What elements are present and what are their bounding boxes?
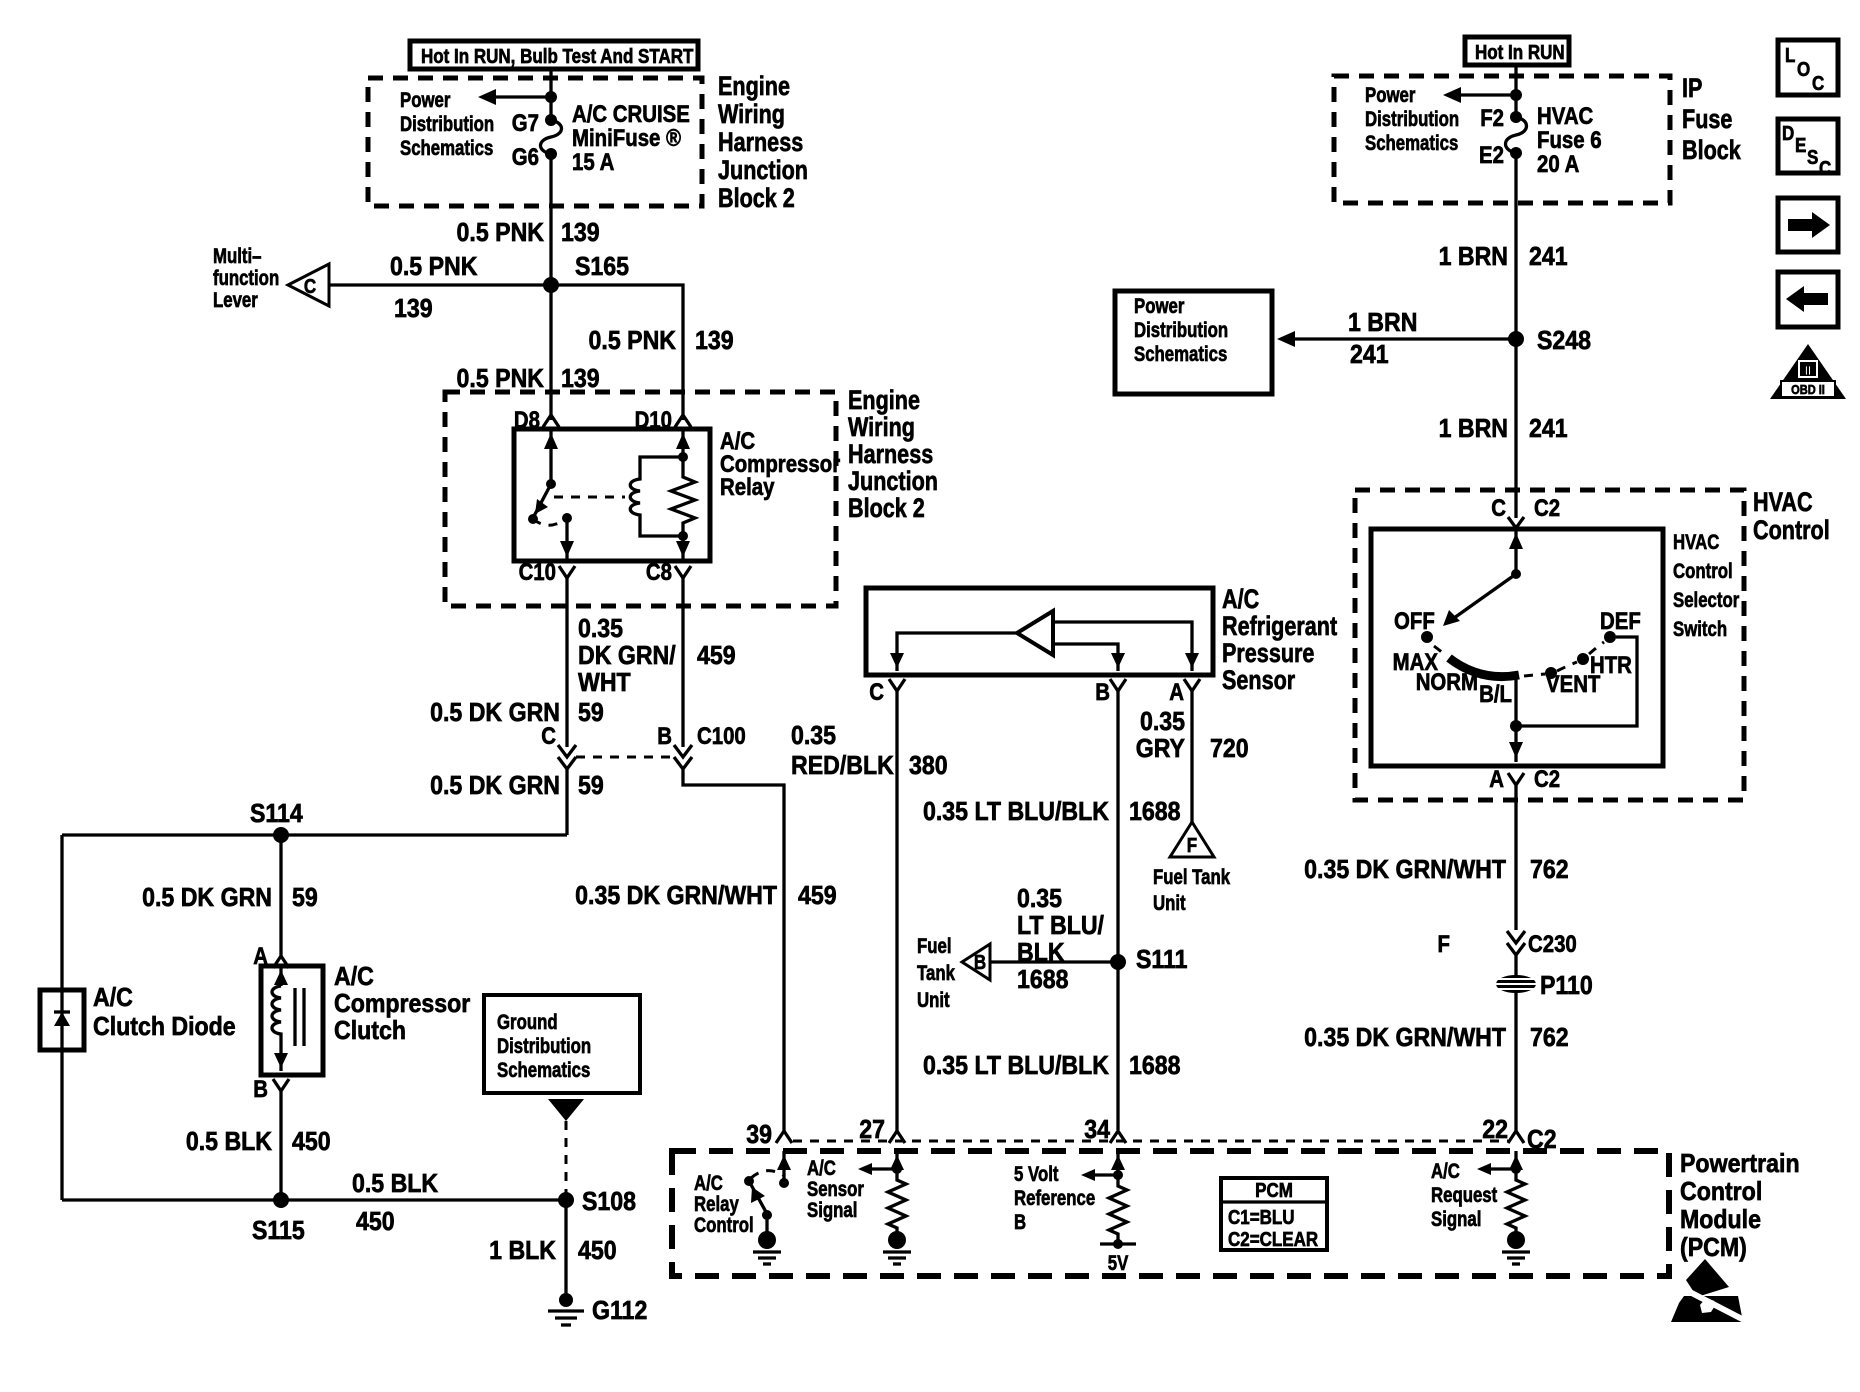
svg-text:Tank: Tank [917,962,955,985]
selector switch arm to OFF [1443,574,1516,626]
svg-text:450: 450 [578,1237,617,1266]
svg-text:Fuel Tank: Fuel Tank [1153,866,1230,889]
PCM A/C request signal at pin 22 [1477,1151,1523,1176]
node junction at arrow [545,91,557,103]
Power Distribution Schematics box (solid) [1115,291,1272,394]
svg-text:1688: 1688 [1129,1052,1180,1081]
contact VENT [1545,667,1601,697]
Ground Distribution Schematics box [484,995,640,1093]
label 0.35 RED/BLK 380 [791,722,948,781]
svg-text:0.35: 0.35 [791,722,836,751]
wire 139 from fuse G6 down to S165 [549,154,552,285]
arrow to power distribution schematics (right) [1443,87,1516,103]
relay switch output to C10 [560,513,574,561]
wire 459 from C8 down to C100 [681,578,684,747]
svg-text:PCM: PCM [1255,1179,1293,1202]
wire 459 jog from C100 down to PCM pin 39 [683,769,784,1131]
svg-text:139: 139 [561,219,600,248]
connector C230 pin F [1438,930,1577,957]
header box Hot In RUN, Bulb Test And START [410,41,698,69]
svg-text:Fuel: Fuel [917,935,952,958]
svg-text:Control: Control [1680,1178,1762,1207]
label Power Distribution Schematics (IP fuse block) [1365,84,1459,155]
fuse block 1 dashed box (Engine Wiring Harness Junction Block 2) [368,78,702,206]
label A/C Compressor Clutch [334,963,471,1046]
node S165 [543,277,559,293]
svg-text:S108: S108 [582,1188,636,1217]
A/C Refrigerant Pressure Sensor box [866,588,1213,675]
svg-text:Signal: Signal [807,1199,857,1222]
IP fuse block dashed box [1334,76,1670,203]
svg-text:Block 2: Block 2 [848,494,925,524]
svg-text:Ground: Ground [497,1011,558,1034]
sidebar icon LOC [1778,40,1838,95]
svg-text:1 BLK: 1 BLK [489,1237,556,1266]
pin C10 [519,558,575,585]
svg-text:Distribution: Distribution [400,113,494,136]
svg-text:22: 22 [1482,1116,1508,1145]
svg-text:Junction: Junction [718,156,808,186]
connector C100 dashed line [576,756,674,759]
wire from header into fuse block [549,69,552,120]
label 0.35 LT BLU/ BLK 1688 (stacked) [1017,885,1104,995]
wire S115 to S108 horizontal [62,1198,566,1201]
node junction at arrow (right) [1510,89,1522,101]
thick arc MAX NORM B/L [1449,658,1519,677]
svg-text:E: E [1795,134,1806,157]
header box Hot In RUN (right) [1465,37,1569,65]
label 0.5 PNK 139 (right branch) [589,327,734,356]
svg-text:function: function [213,267,279,290]
svg-text:139: 139 [561,365,600,394]
sensor internal wire to C [890,633,1017,671]
svg-text:OFF: OFF [1394,607,1435,634]
wire 762 from HVAC A down to C230 [1514,785,1517,930]
svg-text:Engine: Engine [718,72,790,102]
label 0.5 DK GRN 59 (above C100) [430,699,604,728]
svg-text:380: 380 [909,752,948,781]
svg-text:F: F [1438,930,1450,957]
resistor at pin 34 [1109,1182,1127,1244]
svg-text:S: S [1807,146,1818,169]
svg-text:Harness: Harness [848,440,933,470]
resistor at pin 22 [1507,1176,1525,1232]
sensor internal wire to B [1053,644,1125,671]
svg-text:0.5 PNK: 0.5 PNK [457,365,545,394]
svg-text:0.35 DK GRN/WHT: 0.35 DK GRN/WHT [1304,1024,1506,1053]
svg-text:A/C CRUISE: A/C CRUISE [572,100,690,127]
svg-text:1 BRN: 1 BRN [1348,309,1417,338]
wire from diode down to S115 line [60,1050,63,1200]
arrow from ground distribution box [548,1099,584,1121]
PCM ground at relay control [753,1231,781,1264]
sidebar icon forward arrow [1778,198,1838,252]
arrow to power distribution schematics [478,89,551,105]
svg-text:Control: Control [694,1214,754,1237]
svg-text:1 BRN: 1 BRN [1439,243,1508,272]
svg-text:5 Volt: 5 Volt [1014,1163,1059,1186]
svg-text:B: B [1014,1211,1026,1234]
PCM ground at request signal [1502,1231,1530,1264]
svg-text:0.5 DK GRN: 0.5 DK GRN [142,884,272,913]
PCM A/C sensor signal at pin 27 [858,1151,904,1176]
svg-text:WHT: WHT [578,669,631,698]
diode symbol [54,990,70,1050]
off-page connector C multi-function lever [288,264,329,306]
wire 762 from P110 down to PCM pin 22 [1514,992,1517,1131]
relay resistor [671,457,695,536]
label A/C Clutch Diode [93,984,236,1042]
label 1 BLK 450 [489,1237,616,1266]
svg-text:C: C [1812,72,1824,95]
svg-text:GRY: GRY [1136,735,1186,764]
sensor internal wire to A [1053,622,1199,671]
relay coil [630,457,683,536]
svg-text:Relay: Relay [720,473,775,500]
svg-text:C: C [304,275,316,298]
svg-text:0.35 LT BLU/BLK: 0.35 LT BLU/BLK [923,1052,1109,1081]
svg-text:Multi–: Multi– [213,245,261,268]
fuse A/C CRUISE MiniFuse 15A between G7 and G6 [541,114,562,160]
pin C sensor [869,678,905,705]
svg-text:Control: Control [1673,560,1733,583]
svg-text:241: 241 [1350,341,1389,370]
svg-text:B: B [1095,678,1110,705]
relay dashed box (Engine Wiring Harness Junction Block 2) [445,392,836,606]
svg-text:1688: 1688 [1129,798,1180,827]
svg-text:0.35 DK GRN/WHT: 0.35 DK GRN/WHT [1304,856,1506,885]
label A/C Compressor Relay [720,427,840,500]
svg-text:S115: S115 [252,1217,305,1246]
svg-text:Refrigerant: Refrigerant [1222,612,1337,642]
pin D10 [635,406,691,433]
grommet P110 [1490,972,1593,1001]
pin A clutch [253,942,289,969]
wire S165 down to D8 [549,285,552,420]
svg-text:Lever: Lever [213,289,258,312]
PCM 5 volt reference at pin 34 [1081,1151,1125,1182]
svg-text:HVAC: HVAC [1753,488,1813,518]
A/C Compressor Clutch box [261,966,323,1075]
label 0.5 DK GRN 59 (S114 to clutch) [142,884,318,913]
svg-text:S165: S165 [575,253,629,282]
contact OFF [1394,607,1435,643]
contact DEF [1600,607,1641,643]
relay coil wire from D10 [676,429,690,462]
wire from header into IP fuse block [1514,65,1517,117]
sensor amp triangle [1017,611,1053,655]
svg-text:A/C: A/C [334,963,374,992]
label HVAC Control [1753,488,1830,546]
svg-text:C: C [1491,494,1506,521]
svg-text:139: 139 [394,295,433,324]
svg-text:MiniFuse ®: MiniFuse ® [572,124,682,151]
label 0.5 PNK 139 (left branch) [457,365,600,394]
pin 22 C2 [1482,1116,1556,1155]
wire 59 from C100 down to S114 [565,769,568,835]
connector C2 thin dashed line [793,1140,1508,1143]
svg-text:C: C [869,678,884,705]
wire 241 from fuse E2 down to S248 [1514,153,1517,339]
svg-text:762: 762 [1530,1024,1569,1053]
label Powertrain Control Module (PCM) [1680,1150,1800,1263]
svg-text:Schematics: Schematics [1134,343,1227,366]
svg-text:241: 241 [1529,243,1568,272]
clutch coil winding [272,966,288,1071]
svg-text:0.5 BLK: 0.5 BLK [352,1170,438,1199]
fuse HVAC Fuse 6 20A between F2 and E2 [1506,111,1527,159]
svg-text:C2: C2 [1534,494,1560,521]
node S111 [1110,954,1126,970]
svg-text:A/C: A/C [694,1172,723,1195]
svg-text:Request: Request [1431,1184,1498,1207]
ground G112 [548,1293,647,1325]
label 0.5 PNK 139 (above S165) [457,219,600,248]
svg-text:0.35: 0.35 [1140,708,1185,737]
label 0.35 DK GRN/ WHT (C10 wire) [578,615,676,698]
wire 1688 from sensor B down to S111 [1116,691,1119,962]
svg-text:D: D [1782,122,1794,145]
svg-text:Hot In RUN: Hot In RUN [1475,41,1565,64]
node S108 [558,1192,574,1208]
wire 450 from clutch B down to S115 [279,1091,282,1200]
svg-text:Engine: Engine [848,386,920,416]
resistor at pin 27 [888,1176,906,1232]
sidebar icon back arrow [1778,272,1838,327]
sidebar icon OBD II triangle [1770,344,1846,399]
label 5 Volt Reference B [1014,1163,1095,1234]
svg-text:C10: C10 [519,558,556,585]
PCM legend box [1221,1178,1327,1250]
svg-text:Schematics: Schematics [400,137,493,160]
ESD warning symbol [1671,1259,1746,1322]
PCM A/C relay control driver at pin 39 [777,1151,791,1188]
svg-text:F: F [1187,834,1197,857]
svg-text:Power: Power [1365,84,1416,107]
svg-text:Wiring: Wiring [718,100,785,130]
label Engine Wiring Harness Junction Block 2 (top) [718,72,808,214]
svg-text:0.35: 0.35 [1017,885,1062,914]
label Engine Wiring Harness Junction Block 2 (relay) [848,386,938,524]
label HVAC Control Selector Switch [1673,531,1740,641]
svg-text:G7: G7 [512,109,539,136]
svg-text:Module: Module [1680,1206,1761,1235]
svg-text:0.5 PNK: 0.5 PNK [589,327,677,356]
5V source [1100,1239,1136,1276]
label 0.35 DK GRN/WHT 762 (lower) [1304,1024,1568,1053]
pin A C2 (HVAC) [1489,765,1560,792]
wire 1688 from S111 down to PCM pin 34 [1116,962,1119,1130]
svg-text:Switch: Switch [1673,618,1727,641]
svg-text:C2: C2 [1527,1126,1557,1155]
svg-text:OBD II: OBD II [1791,382,1825,397]
label A/C CRUISE MiniFuse 15 A [572,100,690,175]
svg-text:A/C: A/C [1222,585,1259,615]
off-page connector B fuel tank unit [962,944,990,980]
svg-text:A: A [1489,765,1504,792]
label A/C Sensor Signal [807,1157,864,1222]
svg-text:A/C: A/C [93,984,133,1013]
svg-text:Relay: Relay [694,1193,739,1216]
relay coil wire to C8 [676,531,690,561]
svg-text:Schematics: Schematics [1365,132,1458,155]
wire 139 from S165 to multi-function lever [329,283,551,286]
label IP Fuse Block [1682,74,1741,166]
svg-text:(PCM): (PCM) [1680,1234,1747,1263]
svg-text:39: 39 [746,1121,772,1150]
wire 720 from sensor A down to fuel tank unit F [1190,691,1193,826]
svg-text:Selector: Selector [1673,589,1740,612]
svg-text:Hot In RUN, Bulb Test And STAR: Hot In RUN, Bulb Test And START [421,45,694,68]
pin 27 [859,1116,905,1145]
svg-text:A: A [1169,678,1184,705]
svg-text:0.5 BLK: 0.5 BLK [186,1128,272,1157]
svg-text:C: C [1819,157,1831,180]
svg-text:C1=BLU: C1=BLU [1228,1206,1295,1229]
clutch core lines [295,988,304,1046]
svg-text:Unit: Unit [1153,892,1186,915]
svg-text:Signal: Signal [1431,1208,1481,1231]
label 0.35 DK GRN/WHT 459 [575,882,836,911]
svg-text:C8: C8 [646,558,672,585]
svg-text:Fuse 6: Fuse 6 [1537,126,1602,153]
svg-text:L: L [1785,44,1795,67]
svg-text:B: B [974,951,986,974]
svg-text:B: B [253,1075,268,1102]
node S115 [273,1192,289,1208]
svg-text:Unit: Unit [917,989,950,1012]
sidebar icon DESC [1778,119,1838,179]
svg-text:241: 241 [1529,415,1568,444]
svg-text:O: O [1797,58,1810,81]
svg-text:II: II [1805,363,1811,378]
pin A sensor [1169,678,1200,705]
svg-text:1 BRN: 1 BRN [1439,415,1508,444]
wire 59 from S114 down to clutch A [279,835,282,956]
svg-text:Reference: Reference [1014,1187,1095,1210]
svg-text:G6: G6 [512,143,539,170]
label A/C Refrigerant Pressure Sensor [1222,585,1337,696]
svg-text:Control: Control [1753,516,1830,546]
wire S165 right branch over to D10 [551,285,683,420]
label 1 BRN / 241 (horizontal wire) [1348,309,1417,370]
label 0.35 DK GRN/WHT 762 (upper) [1304,856,1568,885]
svg-text:450: 450 [356,1208,395,1237]
contact HTR [1577,651,1632,678]
label 1 BRN 241 (below S248) [1439,415,1568,444]
svg-text:0.35 LT BLU/BLK: 0.35 LT BLU/BLK [923,798,1109,827]
relay actuator dashed link [554,496,625,499]
label A/C Request Signal [1431,1160,1498,1231]
svg-text:C2=CLEAR: C2=CLEAR [1228,1228,1319,1251]
svg-text:E2: E2 [1479,141,1504,168]
dashed links VENT-HTR-DEF [1524,642,1604,676]
svg-text:B/L: B/L [1479,680,1512,707]
pin C C2 (HVAC) [1491,494,1560,528]
node S248 [1508,331,1524,347]
svg-text:DEF: DEF [1600,607,1641,634]
dashed wire to S108 [565,1121,568,1200]
pin C8 [646,558,691,585]
svg-text:S248: S248 [1537,327,1591,356]
off-page connector F fuel tank unit [1170,822,1214,857]
svg-text:0.5 PNK: 0.5 PNK [390,253,478,282]
label HVAC Fuse 6 20 A [1537,102,1602,177]
label Multi-function Lever [213,245,279,312]
svg-text:Schematics: Schematics [497,1059,590,1082]
svg-text:B: B [657,722,672,749]
wire 380 from sensor C down to PCM pin 27 [895,691,898,1131]
wire 59 from C10 down to C100 [565,578,568,747]
svg-text:S114: S114 [250,800,303,829]
svg-text:Distribution: Distribution [497,1035,591,1058]
svg-text:1688: 1688 [1017,966,1068,995]
svg-text:G112: G112 [592,1297,647,1326]
svg-text:HVAC: HVAC [1673,531,1720,554]
svg-text:20 A: 20 A [1537,150,1579,177]
HVAC selector switch box [1371,529,1663,766]
svg-text:450: 450 [292,1128,331,1157]
svg-text:Clutch: Clutch [334,1017,406,1046]
selector output wire B/L to A with DEF branch [1509,637,1637,762]
svg-text:A/C: A/C [807,1157,836,1180]
PCM ground at sensor signal [883,1231,911,1264]
svg-text:Pressure: Pressure [1222,639,1314,669]
svg-text:Wiring: Wiring [848,413,915,443]
svg-text:459: 459 [798,882,837,911]
label A/C Relay Control [694,1172,754,1237]
svg-text:Distribution: Distribution [1134,319,1228,342]
svg-text:Distribution: Distribution [1365,108,1459,131]
svg-text:59: 59 [292,884,318,913]
svg-text:Block 2: Block 2 [718,184,795,214]
svg-text:0.35: 0.35 [578,615,623,644]
pin 34 [1084,1116,1126,1145]
svg-text:DK GRN/: DK GRN/ [578,642,676,671]
label 0.35 LT BLU/BLK 1688 (upper) [923,798,1180,827]
svg-text:C230: C230 [1528,930,1577,957]
HVAC Control dashed box [1355,490,1744,800]
label 0.5 BLK 450 (clutch to S115) [186,1128,331,1157]
svg-text:F2: F2 [1480,104,1504,131]
wire from S111 left to fuel tank unit B [990,960,1118,963]
svg-text:Power: Power [1134,295,1185,318]
node S114 [273,827,289,843]
relay U1 A/C Compressor Relay box [514,429,710,561]
svg-text:A/C: A/C [1431,1160,1460,1183]
svg-text:34: 34 [1084,1116,1110,1145]
connector C100 pin B [657,722,745,769]
svg-text:720: 720 [1210,735,1249,764]
label 1 BRN 241 (above S248) [1439,243,1568,272]
svg-text:459: 459 [697,642,736,671]
PCM dashed box (Powertrain Control Module) [672,1151,1669,1276]
PCM relay control switch arm [744,1171,783,1232]
label Fuel Tank Unit (A wire) [1153,866,1230,915]
wire 241 from S248 down to HVAC control [1514,339,1517,518]
svg-text:NORM: NORM [1416,668,1478,695]
label Power Distribution Schematics (fuse block 1) [400,89,494,160]
svg-text:Harness: Harness [718,128,803,158]
label 0.5 BLK 450 (S115 to S108) [352,1170,438,1237]
svg-text:C2: C2 [1534,765,1560,792]
wire S114 horizontal [62,833,567,836]
svg-text:S111: S111 [1136,946,1187,975]
svg-text:IP: IP [1682,74,1702,104]
svg-text:762: 762 [1530,856,1569,885]
relay switch contact dashed arc to C10 [533,518,567,525]
svg-text:0.5 PNK: 0.5 PNK [457,219,545,248]
